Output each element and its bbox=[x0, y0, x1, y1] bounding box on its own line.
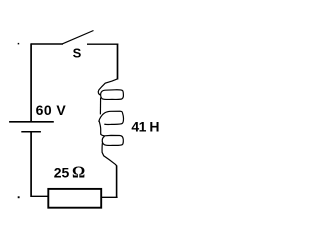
switch S blade bbox=[63, 31, 94, 44]
coil loop 2 bbox=[99, 111, 124, 124]
battery negative plate (short) bbox=[21, 131, 41, 133]
wire left vertical lower bbox=[30, 132, 32, 197]
svg-text:25 Ω: 25 Ω bbox=[54, 163, 85, 182]
resistor R1 box bbox=[48, 189, 101, 208]
wire right vertical upper bbox=[117, 44, 119, 80]
wire bottom-right horizontal bbox=[101, 196, 118, 198]
stray dot top-left bbox=[18, 43, 20, 45]
wire right vertical lower bbox=[116, 166, 118, 199]
stray dot bottom-left bbox=[18, 196, 20, 198]
coil loop 1 bbox=[101, 90, 124, 100]
svg-text:S: S bbox=[73, 46, 82, 61]
wire top-left horizontal bbox=[31, 43, 63, 45]
coil spine 2 bbox=[99, 121, 101, 135]
coil exit lead bbox=[102, 143, 117, 166]
battery positive plate (long) bbox=[9, 121, 54, 123]
svg-text:41 H: 41 H bbox=[131, 118, 159, 134]
wire bottom-left horizontal bbox=[31, 195, 49, 197]
coil spine 1 bbox=[99, 98, 101, 115]
wire top-right horizontal bbox=[87, 43, 118, 45]
wire left vertical upper bbox=[30, 43, 32, 121]
coil entry lead bbox=[98, 79, 117, 95]
coil loop 3 bbox=[101, 134, 124, 146]
inductor L1 (hand-drawn coil) bbox=[98, 79, 123, 166]
svg-text:60 V: 60 V bbox=[36, 102, 67, 118]
